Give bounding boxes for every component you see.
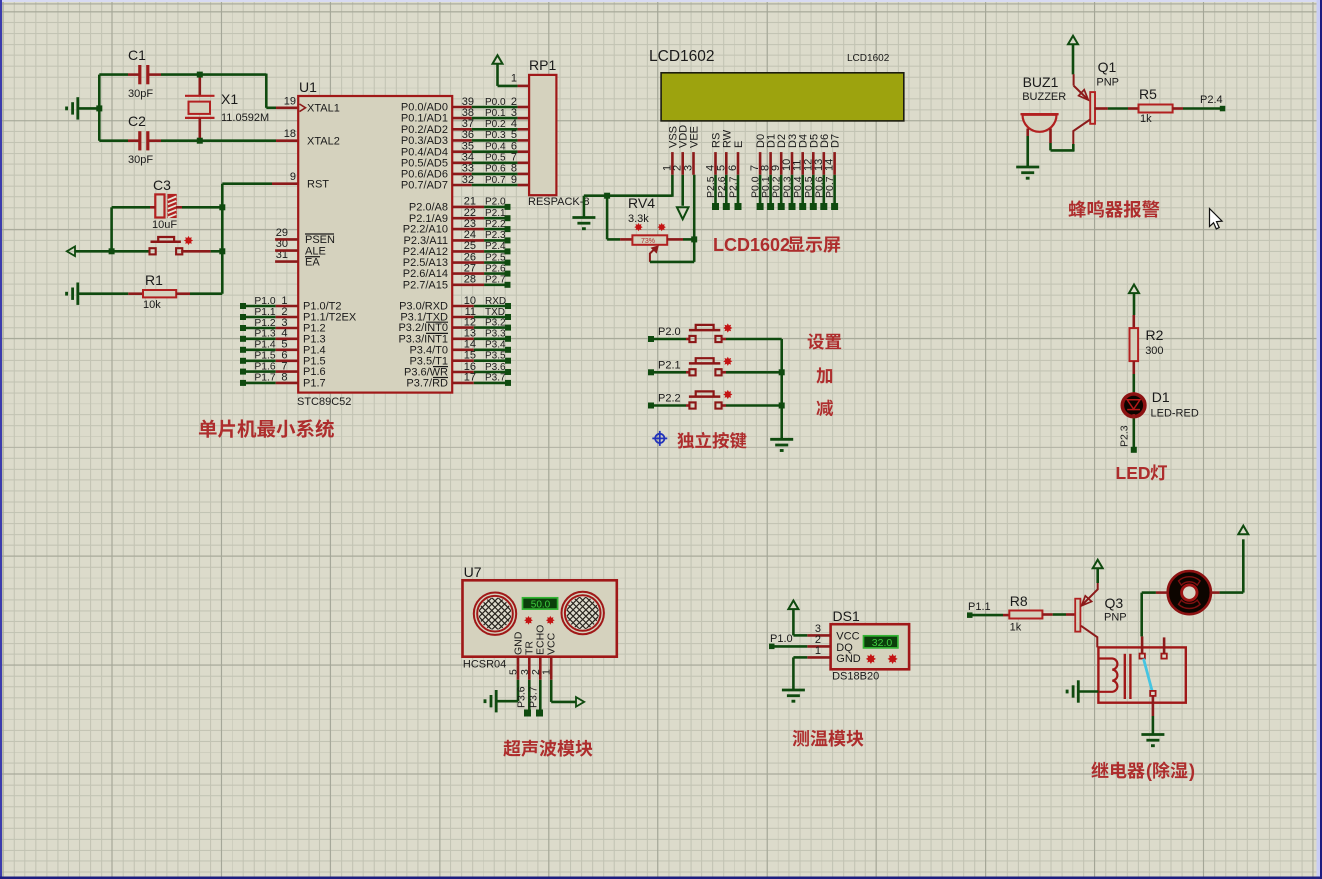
wire P2.2 — [484, 228, 505, 231]
pin P1.4 stub — [276, 348, 299, 351]
svg-text:P2.6: P2.6 — [716, 176, 728, 198]
ground R1 left — [76, 283, 79, 305]
pin P2.1 stub — [452, 217, 484, 220]
wire LCD P0.4 down — [801, 175, 804, 207]
LCD pin 13 stub — [822, 152, 825, 175]
wire XTAL2 segment — [208, 139, 276, 142]
power terminal Q3 — [1093, 560, 1103, 569]
pin P0.0 stub — [452, 106, 472, 109]
pin RP1-8 stub — [518, 173, 530, 176]
svg-text:P1.6: P1.6 — [303, 366, 326, 378]
wire Q1 to R5 — [1108, 107, 1128, 110]
terminal P2.4 — [505, 248, 511, 254]
svg-text:P3.3: P3.3 — [485, 329, 506, 340]
svg-text:6: 6 — [727, 165, 739, 171]
power terminal U7 right-arrow — [576, 697, 584, 707]
ground relay coil — [1077, 680, 1080, 702]
resistor R8 left lead — [1003, 614, 1009, 617]
wire RST to reset net — [222, 182, 272, 185]
svg-text:P2.6/A14: P2.6/A14 — [403, 268, 448, 280]
wire LCD P0.5 down — [812, 175, 815, 207]
wire LCD P0.3 down — [791, 175, 794, 207]
terminal P1.6 — [240, 369, 246, 375]
wire P3.1 — [474, 316, 505, 319]
svg-text:P3.7/RD: P3.7/RD — [406, 378, 448, 390]
relay moving pin — [1152, 696, 1155, 716]
svg-text:50.0: 50.0 — [531, 600, 551, 611]
transistor Q3 base bar — [1075, 599, 1080, 632]
wire P3.4 — [474, 348, 505, 351]
svg-text:RXD: RXD — [485, 296, 506, 307]
svg-text:P0.5: P0.5 — [485, 153, 506, 164]
wire P0.7 — [472, 184, 518, 187]
svg-text:P2.7: P2.7 — [728, 176, 740, 198]
U7 pin VCC stub — [550, 657, 553, 680]
svg-text:P3.7: P3.7 — [485, 373, 506, 384]
svg-text:VCC: VCC — [545, 632, 557, 655]
wire P1.1 to R8 — [972, 614, 1003, 617]
wire LCD P0.7 down — [833, 175, 836, 207]
terminal P3.4 — [505, 347, 511, 353]
terminal P1.0 — [769, 644, 775, 650]
svg-text:C1: C1 — [128, 47, 146, 63]
terminal P1.1 — [240, 314, 246, 320]
resistor R5 right lead — [1173, 107, 1183, 110]
svg-text:P1.4: P1.4 — [254, 340, 275, 351]
LCD pin 7 stub — [759, 152, 762, 175]
svg-text:D1: D1 — [1152, 389, 1170, 405]
pin P2.7 stub — [452, 283, 484, 286]
terminal P3.3 — [505, 336, 511, 342]
relay common contact — [1140, 654, 1145, 659]
wire key P2.1 right — [721, 371, 726, 374]
wire LCD P2.7 down — [737, 175, 740, 207]
wire P0.2 — [472, 128, 518, 131]
ground top-left — [76, 97, 79, 119]
power terminal DS1 — [788, 601, 798, 610]
wire ground to C1C2 net — [78, 107, 100, 110]
svg-text:P2.0: P2.0 — [658, 326, 681, 338]
LCD pin 4 stub — [714, 152, 717, 175]
svg-text:LCD1602: LCD1602 — [649, 48, 715, 65]
terminal P3.6 — [505, 369, 511, 375]
svg-text:P2.7/A15: P2.7/A15 — [403, 279, 448, 291]
ground buzzer — [1016, 166, 1039, 169]
resistor R1 — [143, 290, 176, 297]
wire VSS down — [671, 175, 674, 197]
LCD pin 6 stub — [737, 152, 740, 175]
pin P2.3 stub — [452, 239, 484, 242]
svg-text:HCSR04: HCSR04 — [463, 659, 506, 671]
relay core bars — [1124, 654, 1126, 699]
junction C1C2-gnd — [96, 105, 102, 111]
wire P0.4 — [472, 150, 518, 153]
svg-text:32: 32 — [462, 174, 474, 186]
RV4 interactive star right — [658, 223, 666, 231]
svg-text:P1.3: P1.3 — [254, 329, 275, 340]
terminal P2.7 — [505, 282, 511, 288]
svg-text:R1: R1 — [145, 272, 163, 288]
terminal P1.7 — [240, 380, 246, 386]
pin P3.6 stub — [452, 371, 474, 374]
ground keys bus — [770, 438, 793, 441]
wire wiper return — [650, 261, 694, 264]
terminal LCD P0.6 — [820, 203, 827, 210]
wire LED to P2.3 — [1133, 419, 1136, 450]
svg-text:): ) — [1189, 761, 1195, 781]
wire P2.4 — [484, 250, 505, 253]
power terminal RP1 — [493, 55, 503, 64]
push button P2.1 — [689, 369, 695, 375]
wire R1 right — [176, 292, 190, 295]
wire R2 to LED — [1133, 374, 1136, 392]
U7 left transducer — [474, 593, 516, 635]
terminal LCD P2.7 — [735, 203, 742, 210]
capacitor C3 polarized — [155, 194, 164, 217]
junction button-reset net — [219, 248, 225, 254]
pin P2.4 stub — [452, 250, 484, 253]
terminal P2.6 — [505, 271, 511, 277]
relay box — [1098, 647, 1185, 702]
wire collector to buzzer — [1072, 144, 1075, 151]
svg-text:P2.4: P2.4 — [485, 241, 506, 252]
svg-text:P1.7: P1.7 — [254, 373, 275, 384]
resistor R8 body — [1009, 611, 1042, 619]
svg-text:P3.5/T1: P3.5/T1 — [409, 355, 448, 367]
wire P2.7 — [484, 283, 505, 286]
wire coil gnd — [1078, 690, 1098, 693]
pin P0.5 stub — [452, 162, 472, 165]
svg-text:LCD1602: LCD1602 — [847, 53, 890, 64]
terminal LCD P2.5 — [712, 203, 719, 210]
svg-text:1: 1 — [541, 669, 553, 675]
crystal X1 — [199, 75, 202, 96]
terminal P1.3 — [240, 336, 246, 342]
wire left vertical C1-C2 net — [98, 75, 101, 141]
svg-text:32.0: 32.0 — [872, 637, 893, 649]
svg-text:P2.7: P2.7 — [485, 275, 506, 286]
svg-text:23: 23 — [464, 218, 476, 230]
pin RP1-4 stub — [518, 128, 530, 131]
svg-text:P2.1: P2.1 — [485, 208, 506, 219]
RV4 interactive star left — [634, 223, 642, 231]
pin RP1-9 stub — [518, 184, 530, 187]
wire RV4 net from VSS junction — [606, 196, 609, 240]
pin P1.1 stub — [276, 316, 299, 319]
wire P3.7 — [474, 382, 505, 385]
svg-text:STC89C52: STC89C52 — [297, 396, 351, 408]
LCD pin 5 stub — [725, 152, 728, 175]
svg-text:15: 15 — [464, 350, 476, 362]
junction C3-reset net — [219, 204, 225, 210]
svg-text:25: 25 — [464, 240, 476, 252]
resistor pack RP1 body — [529, 75, 556, 195]
transistor Q1 emitter lead — [1073, 74, 1075, 85]
pin P1.6 stub — [276, 370, 299, 373]
LCD1602 screen — [661, 73, 904, 121]
svg-text:Q1: Q1 — [1098, 59, 1117, 75]
wire arrow to button — [75, 250, 149, 253]
wire motor to power — [1220, 591, 1244, 594]
pin P2.0 stub — [452, 206, 484, 209]
U7 distance display — [523, 598, 558, 609]
terminal P3.7 — [536, 710, 543, 717]
potentiometer RV4 right lead — [667, 238, 683, 241]
DS1 pin 2 stub — [807, 645, 830, 648]
pin P1.3 stub — [276, 337, 299, 340]
svg-text:14: 14 — [824, 159, 836, 171]
svg-text:LED-RED: LED-RED — [1151, 408, 1199, 420]
svg-text:P2.0/A8: P2.0/A8 — [409, 202, 448, 214]
svg-text:P1.7: P1.7 — [303, 378, 326, 390]
svg-text:GND: GND — [836, 653, 861, 665]
LCD pin 1 stub — [671, 152, 674, 175]
wire button right — [181, 250, 210, 253]
wire DS1 vcc — [792, 609, 795, 636]
pin RP1-6 stub — [518, 150, 530, 153]
svg-text:7: 7 — [281, 360, 287, 372]
svg-text:P3.4: P3.4 — [485, 340, 506, 351]
svg-text:3: 3 — [683, 165, 695, 171]
terminal LCD P0.3 — [789, 203, 796, 210]
svg-text:9: 9 — [511, 174, 517, 186]
svg-text:P1.5: P1.5 — [254, 351, 275, 362]
pin P3.4 stub — [452, 348, 474, 351]
pin P2.5 stub — [452, 261, 484, 264]
push button RESET — [148, 250, 151, 253]
wire Q3 power stem — [1096, 568, 1099, 583]
potentiometer RV4 body — [632, 235, 667, 245]
wire C2 row — [99, 139, 128, 142]
transistor Q3 base lead — [1066, 613, 1075, 616]
wire keys bus vertical — [780, 339, 783, 439]
wire key P2.0 right — [721, 338, 726, 341]
svg-text:P0.1/AD1: P0.1/AD1 — [401, 113, 448, 125]
terminal LCD P2.6 — [723, 203, 730, 210]
relay switch arm — [1144, 659, 1153, 692]
terminal P3.5 — [505, 358, 511, 364]
pin P3.2 stub — [452, 326, 474, 329]
pin P3.5 stub — [452, 359, 474, 362]
svg-text:P1.0: P1.0 — [770, 633, 793, 645]
svg-text:5: 5 — [508, 669, 520, 675]
wire P3.0 — [474, 305, 505, 308]
terminal P2.5 — [505, 260, 511, 266]
potentiometer RV4 left lead — [620, 238, 632, 241]
resistor R5 body — [1139, 105, 1173, 113]
terminal P3.1 — [505, 314, 511, 320]
DS1 star right — [888, 654, 898, 664]
wire buzzer power stem — [1072, 44, 1075, 75]
resistor R2 body — [1130, 328, 1139, 361]
junction crystal top — [197, 72, 203, 78]
svg-text:E: E — [733, 141, 745, 148]
resistor R2 top lead — [1133, 315, 1136, 328]
LCD pin 3 stub — [692, 152, 695, 175]
relay coil — [1098, 659, 1117, 692]
svg-text:8: 8 — [281, 372, 287, 384]
svg-text:12: 12 — [464, 316, 476, 328]
svg-text:38: 38 — [462, 107, 474, 119]
svg-text:VEE: VEE — [689, 126, 701, 148]
terminal P1.0 — [240, 303, 246, 309]
svg-text:XTAL1: XTAL1 — [307, 103, 340, 115]
svg-text:29: 29 — [276, 227, 288, 239]
wire R1 left — [78, 292, 129, 295]
terminal P2.0 — [505, 204, 511, 210]
U1 overlines — [426, 321, 448, 323]
wire P1.3 — [246, 337, 276, 340]
pin RP1-7 stub — [518, 162, 530, 165]
pin P1.7 stub — [276, 382, 299, 385]
wire C1 row — [99, 73, 128, 76]
pin P1.0 stub — [276, 305, 299, 308]
LCD pin 14 stub — [833, 152, 836, 175]
wire P2.5 — [484, 261, 505, 264]
terminal P1.2 — [240, 325, 246, 331]
wire P3.2 — [474, 326, 505, 329]
svg-text:LED: LED — [1116, 463, 1151, 483]
label jian — [816, 400, 833, 416]
svg-text:P1.2: P1.2 — [254, 318, 275, 329]
svg-text:10uF: 10uF — [152, 219, 177, 231]
resistor R5 left lead — [1128, 107, 1139, 110]
motor — [1168, 571, 1211, 614]
relay common pin — [1141, 636, 1144, 653]
junction button-left — [109, 248, 115, 254]
power terminal VDD down-arrow — [677, 207, 689, 219]
svg-text:P2.4/A12: P2.4/A12 — [403, 246, 448, 258]
svg-text:XTAL2: XTAL2 — [307, 135, 340, 147]
pin P0.7 stub — [452, 184, 472, 187]
wire P1.2 — [246, 327, 276, 330]
wire relay to gnd — [1152, 716, 1155, 734]
terminal LCD P0.1 — [767, 203, 774, 210]
svg-text:28: 28 — [464, 274, 476, 286]
svg-text:P2.3: P2.3 — [485, 230, 506, 241]
svg-text:1: 1 — [511, 73, 517, 85]
pin P0.1 stub — [452, 117, 472, 120]
terminal P2.3 — [505, 237, 511, 243]
mouse cursor — [1210, 209, 1223, 229]
pin P0.3 stub — [452, 139, 472, 142]
pin RP1-5 stub — [518, 139, 530, 142]
terminal P3.2 — [505, 325, 511, 331]
LCD pin 10 stub — [791, 152, 794, 175]
svg-text:P2.2/A10: P2.2/A10 — [403, 224, 448, 236]
svg-text:27: 27 — [464, 262, 476, 274]
wire P3.6 — [474, 371, 505, 374]
power terminal buzzer — [1068, 36, 1078, 45]
svg-text:300: 300 — [1145, 345, 1163, 357]
pin RP1-2 stub — [518, 106, 530, 109]
relay moving contact — [1150, 691, 1155, 696]
wire P2.1 — [484, 217, 505, 220]
pin XTAL1 stub — [276, 107, 298, 110]
svg-text:D7: D7 — [830, 134, 842, 148]
svg-text:EA: EA — [305, 256, 320, 268]
wire key P2.2 left — [654, 404, 686, 407]
wire P3.3 — [474, 337, 505, 340]
buzzer left pin — [1026, 129, 1029, 137]
wire LCD P0.1 down — [769, 175, 772, 207]
wire XTAL1 drop — [265, 74, 268, 108]
terminal LCD P0.7 — [831, 203, 838, 210]
module U7 HCSR04 body — [463, 580, 617, 656]
wire U7 ECHO to P3.7 — [539, 680, 542, 711]
wire VDD down — [681, 175, 684, 206]
wire C3 left — [112, 206, 150, 209]
button interactive star — [184, 236, 193, 245]
DS1 pin 3 stub — [807, 634, 830, 637]
svg-text:U1: U1 — [299, 79, 317, 95]
LCD pin 11 stub — [801, 152, 804, 175]
wire VSS-gnd-RV4 horizontal — [584, 194, 673, 197]
terminal P2.1 — [505, 215, 511, 221]
terminal P1.1 — [967, 612, 973, 618]
svg-text:P0.3: P0.3 — [485, 130, 506, 141]
svg-text:73%: 73% — [641, 238, 655, 245]
svg-text:RV4: RV4 — [628, 195, 655, 211]
svg-text:36: 36 — [462, 129, 474, 141]
wire P0.1 — [472, 117, 518, 120]
wire LCD P2.5 down — [714, 175, 717, 207]
terminal key P2.1 — [648, 369, 654, 375]
svg-text:1: 1 — [815, 645, 821, 657]
DS1 pin 1 stub — [807, 656, 830, 659]
svg-text:P2.0: P2.0 — [485, 197, 506, 208]
svg-text:P2.2: P2.2 — [658, 393, 681, 405]
svg-text:RP1: RP1 — [529, 57, 556, 73]
U7 pin TR stub — [528, 657, 531, 680]
svg-text:11.0592M: 11.0592M — [221, 112, 269, 124]
wire reset net vertical — [221, 184, 224, 294]
LCD pin 9 stub — [780, 152, 783, 175]
resistor R8 right lead — [1042, 613, 1052, 616]
wire key P2.2 right — [721, 404, 726, 407]
pin ALE stub — [275, 249, 298, 252]
push button P2.2 — [689, 402, 695, 408]
DS1 star left — [866, 654, 876, 664]
svg-text:PNP: PNP — [1104, 612, 1127, 624]
RV4 wiper arrow — [650, 250, 654, 262]
marker crosshair — [652, 431, 667, 446]
svg-text:P3.6: P3.6 — [485, 362, 506, 373]
wire P1.5 — [246, 359, 276, 362]
wire C3 right — [176, 206, 182, 209]
svg-text:P2.6: P2.6 — [485, 263, 506, 274]
svg-text:TXD: TXD — [485, 307, 505, 318]
svg-text:U7: U7 — [464, 564, 482, 580]
LCD pin 12 stub — [812, 152, 815, 175]
svg-text:RST: RST — [307, 178, 329, 190]
svg-text:P3.7: P3.7 — [527, 686, 539, 708]
U7 right transducer — [562, 592, 604, 634]
terminal LCD P0.5 — [810, 203, 817, 210]
svg-text:PSEN: PSEN — [305, 234, 335, 246]
pin RP1-1 stub — [518, 85, 530, 88]
svg-text:VCC: VCC — [836, 631, 859, 643]
push button P2.0 — [689, 336, 695, 342]
terminal P3.0 — [505, 303, 511, 309]
svg-text:P2.2: P2.2 — [485, 219, 506, 230]
U7 star right — [546, 616, 555, 625]
svg-text:RW: RW — [721, 129, 733, 148]
svg-text:Q3: Q3 — [1105, 595, 1124, 611]
svg-text:9: 9 — [290, 171, 296, 183]
ground U7 — [495, 690, 498, 712]
relay NC contact — [1161, 654, 1166, 659]
